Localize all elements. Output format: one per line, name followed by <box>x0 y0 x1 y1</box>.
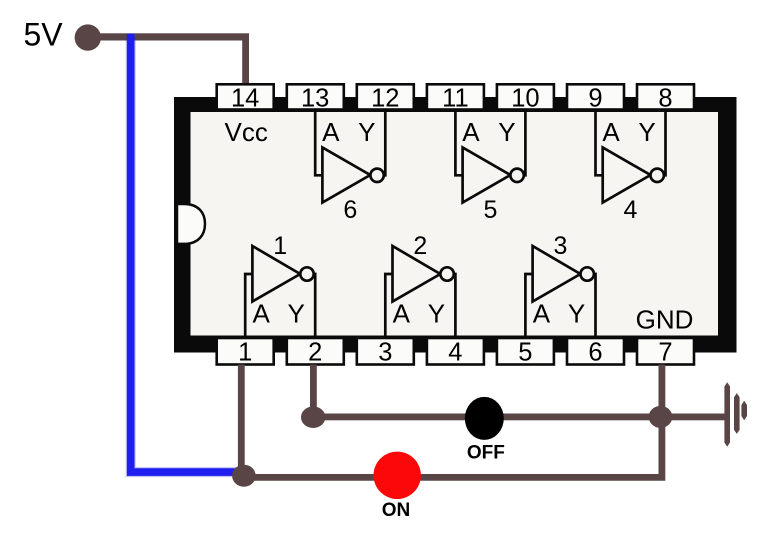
node: 5V supply node <box>75 24 101 50</box>
wire: 5V to pin 14 <box>90 33 249 86</box>
wire: pin 7 down to node C <box>659 365 666 418</box>
pin 5 <box>497 338 554 367</box>
svg-text:A: A <box>462 117 480 147</box>
IC notch (pin-1 index mark) <box>177 204 205 244</box>
inverter gate 3 (pins 5->6) <box>525 232 595 338</box>
svg-text:8: 8 <box>658 84 672 112</box>
pin 10 <box>497 84 554 112</box>
svg-text:10: 10 <box>511 84 539 112</box>
svg-text:Y: Y <box>358 117 375 147</box>
wire: pin 1 down to node A <box>238 365 245 473</box>
svg-text:4: 4 <box>624 196 638 224</box>
GND label (pin 7) <box>636 305 694 335</box>
svg-text:14: 14 <box>231 84 259 112</box>
inverter gate 6 (pins 13->12) <box>315 110 385 224</box>
svg-text:1: 1 <box>273 232 287 260</box>
IC U1 body (hex inverter DIP-14) <box>174 97 737 353</box>
svg-text:A: A <box>253 299 271 329</box>
pin 11 <box>427 84 484 112</box>
pin 14 <box>217 84 274 112</box>
node B (junction: pin 2 / OFF wire) <box>301 406 325 428</box>
svg-text:GND: GND <box>636 305 694 335</box>
svg-text:3: 3 <box>378 339 392 367</box>
svg-text:A: A <box>393 299 411 329</box>
pin 9 <box>567 84 624 112</box>
inverter gate 5 (pins 11->10) <box>455 110 525 224</box>
inverter gate 4 (pins 9->8) <box>596 110 666 224</box>
pin 6 <box>567 338 624 367</box>
pin 4 <box>427 338 484 367</box>
svg-text:11: 11 <box>442 84 468 112</box>
switch OFF (black pushbutton) <box>465 397 505 464</box>
svg-text:Y: Y <box>568 299 585 329</box>
svg-text:5: 5 <box>483 196 497 224</box>
svg-text:2: 2 <box>413 232 427 260</box>
svg-text:Y: Y <box>638 117 655 147</box>
svg-text:Y: Y <box>498 117 515 147</box>
svg-text:7: 7 <box>658 339 672 367</box>
pin 2 <box>287 338 344 367</box>
svg-text:Vcc: Vcc <box>225 117 268 147</box>
pin 3 <box>357 338 414 367</box>
svg-text:12: 12 <box>371 84 399 112</box>
pin 8 <box>637 84 694 112</box>
svg-text:5V: 5V <box>24 16 64 52</box>
wire: blue wire from 5V rail down to junction node A <box>131 34 240 473</box>
node A (junction: blue wire / pin 1 / ON wire) <box>232 465 256 487</box>
ground symbol <box>724 382 747 446</box>
svg-text:3: 3 <box>553 232 567 260</box>
pin 1 <box>217 338 274 367</box>
svg-text:Y: Y <box>288 299 305 329</box>
svg-text:13: 13 <box>301 84 329 112</box>
5V supply label <box>24 16 64 52</box>
svg-text:6: 6 <box>588 339 602 367</box>
svg-text:1: 1 <box>238 339 252 367</box>
wire: OFF wire from node B to ground symbol <box>313 414 725 421</box>
svg-text:ON: ON <box>382 500 411 521</box>
svg-text:4: 4 <box>448 339 462 367</box>
wire: pin 2 down to node B <box>310 365 317 418</box>
node C (junction: pin 7 / OFF wire / ON wire / ground) <box>649 406 673 428</box>
inverter gate 2 (pins 3->4) <box>385 232 455 338</box>
switch ON (red pushbutton) <box>374 452 421 522</box>
wire: ON wire from node A to ground node riser <box>244 420 662 477</box>
svg-text:A: A <box>602 117 620 147</box>
svg-text:6: 6 <box>343 196 357 224</box>
pin 13 <box>287 84 344 112</box>
svg-text:2: 2 <box>308 339 322 367</box>
svg-text:A: A <box>533 299 551 329</box>
svg-text:9: 9 <box>588 84 602 112</box>
pin 7 <box>637 338 694 367</box>
inverter gate 1 (pins 1->2) <box>245 232 315 338</box>
svg-text:5: 5 <box>518 339 532 367</box>
Vcc label (pin 14) <box>225 117 268 147</box>
svg-text:Y: Y <box>428 299 445 329</box>
pin 12 <box>357 84 414 112</box>
svg-text:A: A <box>322 117 340 147</box>
svg-text:OFF: OFF <box>467 443 505 464</box>
